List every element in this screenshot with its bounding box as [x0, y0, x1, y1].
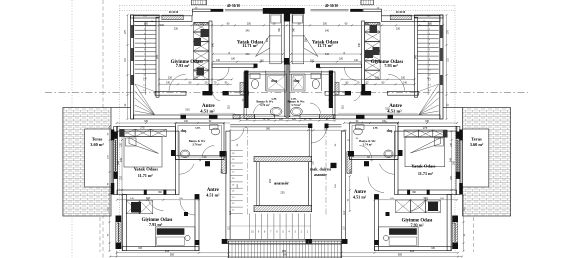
svg-text:250: 250	[268, 178, 272, 183]
svg-text:340: 340	[212, 42, 215, 47]
svg-text:585: 585	[170, 254, 175, 257]
svg-text:110: 110	[365, 22, 370, 25]
svg-text:100: 100	[375, 76, 380, 79]
svg-text:4.51 m²: 4.51 m²	[200, 109, 215, 114]
svg-text:3.74 m²: 3.74 m²	[291, 103, 301, 107]
svg-text:300: 300	[305, 37, 308, 42]
svg-text:235: 235	[280, 191, 285, 195]
svg-text:asansör: asansör	[274, 180, 289, 185]
svg-text:510: 510	[385, 107, 390, 111]
svg-text:4.51 m²: 4.51 m²	[353, 194, 367, 199]
svg-text:380: 380	[282, 249, 287, 253]
svg-text:140: 140	[403, 81, 408, 84]
svg-text:40-30/10: 40-30/10	[169, 11, 179, 14]
svg-text:100: 100	[428, 22, 433, 25]
svg-text:100: 100	[160, 24, 165, 27]
svg-text:110: 110	[348, 168, 352, 173]
svg-text:180: 180	[231, 58, 236, 61]
svg-text:40-30/10: 40-30/10	[227, 4, 240, 8]
svg-text:110: 110	[200, 22, 205, 25]
svg-text:110: 110	[227, 104, 231, 109]
svg-text:340: 340	[358, 42, 361, 47]
svg-text:585: 585	[398, 254, 403, 257]
svg-text:Teras: Teras	[471, 137, 482, 142]
svg-text:300: 300	[117, 160, 120, 165]
svg-text:380: 380	[283, 254, 288, 257]
svg-text:110: 110	[229, 210, 232, 214]
svg-text:40-30/10: 40-30/10	[396, 11, 406, 14]
svg-text:230: 230	[174, 28, 179, 31]
svg-text:275: 275	[423, 126, 428, 130]
svg-text:duş: duş	[293, 78, 299, 83]
svg-text:110: 110	[343, 210, 346, 214]
svg-text:Yatak Odası: Yatak Odası	[411, 163, 436, 168]
svg-text:340: 340	[146, 196, 151, 200]
svg-text:duş: duş	[387, 129, 393, 133]
svg-text:230: 230	[396, 28, 401, 31]
svg-text:3.74 m²: 3.74 m²	[192, 143, 201, 147]
svg-text:340: 340	[245, 53, 250, 56]
svg-text:4.51 m²: 4.51 m²	[206, 192, 220, 197]
svg-text:180: 180	[339, 58, 344, 61]
svg-text:460: 460	[410, 249, 415, 253]
svg-text:11.71 m²: 11.71 m²	[138, 173, 154, 178]
svg-text:460: 460	[165, 249, 170, 253]
svg-text:7.93 m²: 7.93 m²	[384, 63, 398, 68]
svg-text:200: 200	[323, 22, 328, 25]
svg-text:duş: duş	[271, 78, 277, 83]
svg-text:asansör: asansör	[314, 172, 327, 177]
svg-text:3.74 m²: 3.74 m²	[260, 103, 270, 107]
svg-text:360: 360	[266, 127, 271, 130]
svg-text:7.93 m²: 7.93 m²	[176, 63, 190, 68]
svg-text:3.74 m²: 3.74 m²	[363, 143, 372, 147]
svg-text:340: 340	[415, 54, 418, 59]
svg-text:110: 110	[219, 168, 223, 173]
svg-text:100: 100	[194, 76, 199, 79]
svg-text:200: 200	[247, 22, 252, 25]
svg-text:11.71 m²: 11.71 m²	[317, 43, 333, 48]
svg-text:340: 340	[245, 30, 250, 33]
svg-text:340: 340	[325, 30, 330, 33]
svg-text:510: 510	[185, 108, 190, 112]
svg-text:140: 140	[166, 81, 171, 84]
svg-text:ç.m.: ç.m.	[373, 126, 379, 130]
svg-text:300: 300	[266, 37, 269, 42]
svg-text:275: 275	[140, 125, 145, 129]
svg-text:11.71 m²: 11.71 m²	[242, 43, 258, 48]
svg-text:11.71 m²: 11.71 m²	[418, 171, 434, 176]
svg-text:Teras: Teras	[92, 137, 103, 142]
svg-text:230: 230	[401, 76, 406, 79]
svg-text:mak. dairesi: mak. dairesi	[310, 167, 332, 172]
svg-text:3.60 m²: 3.60 m²	[470, 142, 484, 147]
svg-text:340: 340	[325, 53, 330, 56]
svg-text:ç.m.: ç.m.	[195, 126, 200, 130]
svg-text:7.93 m²: 7.93 m²	[410, 223, 424, 228]
svg-text:duş: duş	[181, 129, 187, 133]
svg-text:100: 100	[144, 22, 149, 25]
svg-text:Yatak Odası: Yatak Odası	[134, 166, 159, 171]
svg-text:110: 110	[341, 104, 345, 109]
svg-text:3.60 m²: 3.60 m²	[90, 142, 104, 147]
svg-text:7.93 m²: 7.93 m²	[149, 222, 163, 227]
svg-text:340: 340	[423, 196, 428, 200]
svg-text:340: 340	[156, 54, 159, 59]
svg-text:230: 230	[168, 76, 173, 79]
svg-text:300: 300	[453, 160, 456, 165]
svg-text:40-30/10: 40-30/10	[325, 4, 338, 8]
